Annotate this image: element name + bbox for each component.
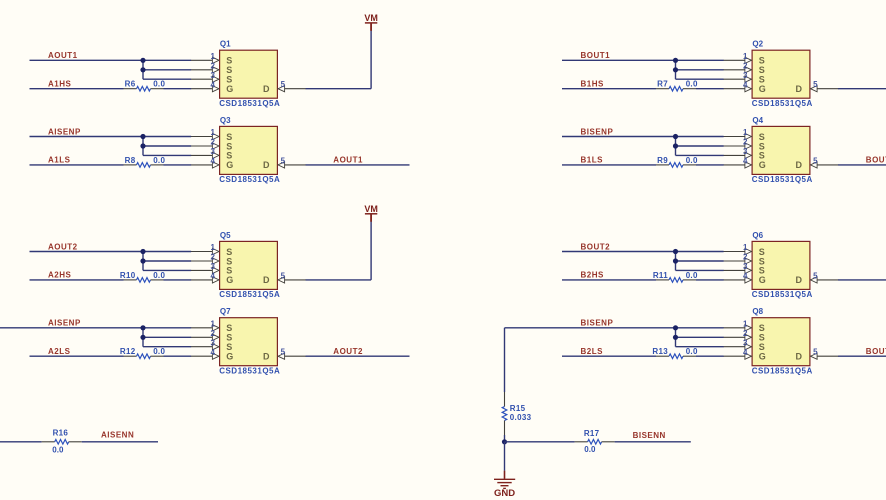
junction on net AISENP at Q7 pin 2 branch <box>140 335 145 340</box>
svg-text:3: 3 <box>743 147 748 156</box>
svg-text:BISENN: BISENN <box>633 431 666 440</box>
svg-text:S: S <box>759 266 765 276</box>
wire from Q6 drain pin 5 to VM (off sheet right) <box>838 279 886 281</box>
resistor R17 (0.0 ohm, BISENN sense) <box>575 440 615 445</box>
wire net AOUT1 to Q1 pins 1-3 <box>30 60 192 79</box>
svg-text:0.0: 0.0 <box>686 347 698 356</box>
svg-text:S: S <box>226 266 232 276</box>
wire net BISENP vertical from Q8 pin1 row down to shunt R15 <box>504 328 506 392</box>
transistor Q1 pin 1 (S) stub, arrow, pin number <box>191 52 219 64</box>
junction on net BISENP at Q4 pin 2 branch <box>673 143 678 148</box>
junction on net BISENP at Q8 pin 2 branch <box>673 335 678 340</box>
junction on net AOUT2 at Q5 pin 2 branch <box>140 258 145 263</box>
svg-text:A1HS: A1HS <box>48 80 72 89</box>
transistor Q3 pin 1 (S) stub, arrow, pin number <box>191 128 219 140</box>
svg-text:4: 4 <box>743 348 748 357</box>
transistor Q7 pin 2 (S) stub, arrow, pin number <box>191 329 219 341</box>
svg-text:D: D <box>796 84 803 94</box>
svg-text:1: 1 <box>211 128 216 137</box>
transistor Q4 pin 1 (S) stub, arrow, pin number <box>723 128 751 140</box>
svg-text:3: 3 <box>743 262 748 271</box>
resistor R15 (0.033 ohm current shunt, vertical) <box>502 392 507 435</box>
svg-text:CSD18531Q5A: CSD18531Q5A <box>219 366 280 375</box>
transistor Q6 pin 2 (S) stub, arrow, pin number <box>723 253 751 265</box>
wire net AISENN from R16 <box>82 441 158 443</box>
svg-text:G: G <box>759 160 766 170</box>
svg-text:S: S <box>759 151 765 161</box>
svg-text:5: 5 <box>281 271 286 280</box>
wire from R15 to GND junction <box>504 435 506 442</box>
svg-text:R11: R11 <box>653 271 668 280</box>
svg-text:1: 1 <box>743 128 748 137</box>
transistor Q7 body (CSD18531Q5A power MOSFET block) <box>220 318 278 366</box>
wire net A2LS to resistor R12 <box>30 355 124 357</box>
svg-text:2: 2 <box>211 253 216 262</box>
resistor R7 (series 0.0 ohm in B1HS gate line) <box>656 86 696 91</box>
svg-text:S: S <box>226 75 232 85</box>
junction on net BISENP at Q4 pin 1 branch <box>673 134 678 139</box>
svg-text:D: D <box>263 352 270 362</box>
transistor Q3 body (CSD18531Q5A power MOSFET block) <box>220 126 278 174</box>
junction on net AISENP at Q7 pin 1 branch <box>140 325 145 330</box>
wire net AOUT2 from Q7 drain pin 5 <box>306 355 410 357</box>
wire from resistor R7 to Q2 gate pin 4 <box>696 88 724 90</box>
svg-text:1: 1 <box>743 52 748 61</box>
svg-text:3: 3 <box>743 71 748 80</box>
svg-text:3: 3 <box>211 147 216 156</box>
svg-text:Q3: Q3 <box>220 116 231 125</box>
svg-text:0.0: 0.0 <box>153 347 165 356</box>
svg-text:3: 3 <box>211 71 216 80</box>
transistor Q4 pin 5 (D) stub, arrow, pin number <box>811 156 839 168</box>
wire net A2HS to resistor R10 <box>30 279 124 281</box>
transistor Q2 pin 2 (S) stub, arrow, pin number <box>723 61 751 73</box>
svg-text:3: 3 <box>743 338 748 347</box>
svg-text:G: G <box>759 84 766 94</box>
transistor Q2 pin 3 (S) stub, arrow, pin number <box>723 71 751 83</box>
transistor Q7 pin 5 (D) stub, arrow, pin number <box>278 348 306 360</box>
svg-text:B2HS: B2HS <box>581 271 605 280</box>
svg-text:R12: R12 <box>120 347 136 356</box>
svg-text:BOUT1: BOUT1 <box>581 51 611 60</box>
transistor Q7 pin 4 (G) stub, arrow, pin number <box>191 348 219 360</box>
svg-text:VM: VM <box>364 13 378 23</box>
transistor Q2 pin 5 (D) stub, arrow, pin number <box>811 80 839 92</box>
svg-text:4: 4 <box>211 80 216 89</box>
resistor R13 (series 0.0 ohm in B2LS gate line) <box>656 354 696 359</box>
wire net BISENP to Q4 pins 1-3 <box>562 137 724 156</box>
svg-text:R16: R16 <box>53 428 69 437</box>
junction on net BISENP at Q8 pin 1 branch <box>673 325 678 330</box>
svg-text:CSD18531Q5A: CSD18531Q5A <box>752 290 813 299</box>
svg-text:Q1: Q1 <box>220 40 231 49</box>
transistor Q7 pin 1 (S) stub, arrow, pin number <box>191 319 219 331</box>
wire net B2HS to resistor R11 <box>562 279 656 281</box>
transistor Q3 pin 4 (G) stub, arrow, pin number <box>191 157 219 169</box>
junction on net BOUT1 at Q2 pin 1 branch <box>673 58 678 63</box>
wire from Q1 drain pin 5 to VM <box>306 23 372 89</box>
wire net AOUT2 to Q5 pins 1-3 <box>30 252 192 271</box>
svg-text:CSD18531Q5A: CSD18531Q5A <box>752 175 813 184</box>
transistor Q8 pin 3 (S) stub, arrow, pin number <box>723 338 751 350</box>
svg-text:4: 4 <box>211 348 216 357</box>
svg-text:A2HS: A2HS <box>48 271 72 280</box>
svg-text:2: 2 <box>743 253 748 262</box>
svg-text:0.0: 0.0 <box>52 446 64 455</box>
transistor Q3 pin 5 (D) stub, arrow, pin number <box>278 156 306 168</box>
transistor Q6 pin 5 (D) stub, arrow, pin number <box>811 271 839 283</box>
wire net B1HS to resistor R7 <box>562 88 656 90</box>
svg-text:0.0: 0.0 <box>584 445 596 454</box>
ground symbol GND <box>494 479 515 488</box>
transistor Q8 pin 4 (G) stub, arrow, pin number <box>723 348 751 360</box>
svg-text:CSD18531Q5A: CSD18531Q5A <box>219 175 280 184</box>
transistor Q5 body (CSD18531Q5A power MOSFET block) <box>220 241 278 289</box>
wire net A1HS to resistor R6 <box>30 88 124 90</box>
svg-text:BOUT1: BOUT1 <box>866 156 886 165</box>
wire net BISENN from R17 <box>615 441 691 443</box>
svg-text:5: 5 <box>813 80 818 89</box>
wire net AISENP sense line into resistor R16 (from sheet edge) <box>0 441 42 443</box>
svg-text:Q8: Q8 <box>752 307 763 316</box>
svg-text:S: S <box>226 151 232 161</box>
svg-text:BOUT2: BOUT2 <box>866 347 886 356</box>
resistor R11 (series 0.0 ohm in B2HS gate line) <box>656 278 696 283</box>
wire from junction down to ground <box>504 442 506 479</box>
svg-text:G: G <box>759 275 766 285</box>
svg-text:Q5: Q5 <box>220 231 231 240</box>
transistor Q6 pin 1 (S) stub, arrow, pin number <box>723 243 751 255</box>
wire from resistor R8 to Q3 gate pin 4 <box>164 164 192 166</box>
power symbol VM (bar) <box>365 214 377 222</box>
transistor Q2 pin 4 (G) stub, arrow, pin number <box>723 80 751 92</box>
transistor Q2 body (CSD18531Q5A power MOSFET block) <box>752 50 810 98</box>
svg-text:AOUT2: AOUT2 <box>333 347 363 356</box>
svg-text:5: 5 <box>281 348 286 357</box>
transistor Q5 pin 1 (S) stub, arrow, pin number <box>191 243 219 255</box>
resistor R8 (series 0.0 ohm in A1LS gate line) <box>124 163 164 168</box>
svg-text:AISENN: AISENN <box>101 430 134 439</box>
svg-text:4: 4 <box>743 272 748 281</box>
transistor Q1 pin 3 (S) stub, arrow, pin number <box>191 71 219 83</box>
transistor Q1 body (CSD18531Q5A power MOSFET block) <box>220 50 278 98</box>
svg-text:1: 1 <box>211 243 216 252</box>
svg-text:S: S <box>226 342 232 352</box>
transistor Q1 pin 4 (G) stub, arrow, pin number <box>191 80 219 92</box>
wire from Q2 drain pin 5 to VM (off sheet right) <box>838 88 886 90</box>
svg-text:4: 4 <box>743 80 748 89</box>
transistor Q4 pin 2 (S) stub, arrow, pin number <box>723 138 751 150</box>
resistor R16 (0.0 ohm, AISENN sense) <box>42 440 82 445</box>
wire from resistor R12 to Q7 gate pin 4 <box>164 355 192 357</box>
svg-text:S: S <box>759 132 765 142</box>
svg-text:B1HS: B1HS <box>581 80 605 89</box>
transistor Q6 pin 4 (G) stub, arrow, pin number <box>723 272 751 284</box>
svg-text:Q4: Q4 <box>752 116 763 125</box>
svg-text:5: 5 <box>813 271 818 280</box>
svg-text:R10: R10 <box>120 271 136 280</box>
svg-text:CSD18531Q5A: CSD18531Q5A <box>752 99 813 108</box>
svg-text:2: 2 <box>211 61 216 70</box>
svg-text:S: S <box>226 323 232 333</box>
svg-text:R15: R15 <box>510 404 526 413</box>
svg-text:BOUT2: BOUT2 <box>581 242 611 251</box>
transistor Q3 pin 2 (S) stub, arrow, pin number <box>191 138 219 150</box>
transistor Q5 pin 5 (D) stub, arrow, pin number <box>278 271 306 283</box>
svg-text:R17: R17 <box>584 429 600 438</box>
svg-text:D: D <box>796 352 803 362</box>
svg-text:3: 3 <box>211 338 216 347</box>
wire from resistor R6 to Q1 gate pin 4 <box>164 88 192 90</box>
junction on net AOUT1 at Q1 pin 1 branch <box>140 58 145 63</box>
svg-text:5: 5 <box>813 156 818 165</box>
svg-text:S: S <box>759 56 765 66</box>
transistor Q1 pin 2 (S) stub, arrow, pin number <box>191 61 219 73</box>
svg-text:G: G <box>226 275 233 285</box>
svg-text:GND: GND <box>494 488 515 499</box>
svg-text:0.0: 0.0 <box>153 156 165 165</box>
svg-text:B2LS: B2LS <box>581 347 604 356</box>
svg-text:CSD18531Q5A: CSD18531Q5A <box>219 290 280 299</box>
svg-text:5: 5 <box>813 348 818 357</box>
wire from Q5 drain pin 5 to VM <box>306 214 372 280</box>
svg-text:CSD18531Q5A: CSD18531Q5A <box>219 99 280 108</box>
svg-text:Q7: Q7 <box>220 307 231 316</box>
svg-text:AISENP: AISENP <box>48 319 81 328</box>
wire net AISENP to Q3 pins 1-3 <box>30 137 192 156</box>
svg-text:1: 1 <box>211 319 216 328</box>
resistor R10 (series 0.0 ohm in A2HS gate line) <box>124 278 164 283</box>
junction at R15 / R17 / GND node <box>502 439 507 444</box>
svg-text:0.0: 0.0 <box>686 156 698 165</box>
transistor Q6 pin 3 (S) stub, arrow, pin number <box>723 262 751 274</box>
svg-text:S: S <box>759 75 765 85</box>
junction on net AOUT2 at Q5 pin 1 branch <box>140 249 145 254</box>
svg-text:1: 1 <box>743 319 748 328</box>
wire net BOUT1 to Q2 pins 1-3 <box>562 60 724 79</box>
transistor Q8 pin 2 (S) stub, arrow, pin number <box>723 329 751 341</box>
wire net BOUT2 to Q6 pins 1-3 <box>562 252 724 271</box>
svg-text:2: 2 <box>211 329 216 338</box>
wire net AOUT1 from Q3 drain pin 5 <box>306 164 410 166</box>
wire net A1LS to resistor R8 <box>30 164 124 166</box>
wire from resistor R10 to Q5 gate pin 4 <box>164 279 192 281</box>
transistor Q5 pin 3 (S) stub, arrow, pin number <box>191 262 219 274</box>
svg-text:AOUT1: AOUT1 <box>333 156 363 165</box>
svg-text:BISENP: BISENP <box>581 319 614 328</box>
svg-text:5: 5 <box>281 156 286 165</box>
svg-text:CSD18531Q5A: CSD18531Q5A <box>752 366 813 375</box>
svg-text:G: G <box>226 160 233 170</box>
svg-text:S: S <box>759 342 765 352</box>
transistor Q4 pin 3 (S) stub, arrow, pin number <box>723 147 751 159</box>
svg-text:Q2: Q2 <box>752 40 763 49</box>
wire net B2LS to resistor R13 <box>562 355 656 357</box>
svg-text:D: D <box>263 275 270 285</box>
junction on net BOUT2 at Q6 pin 1 branch <box>673 249 678 254</box>
svg-text:Q6: Q6 <box>752 231 763 240</box>
transistor Q2 pin 1 (S) stub, arrow, pin number <box>723 52 751 64</box>
svg-text:S: S <box>759 323 765 333</box>
svg-text:VM: VM <box>364 204 378 214</box>
svg-text:D: D <box>796 275 803 285</box>
wire from resistor R11 to Q6 gate pin 4 <box>696 279 724 281</box>
svg-text:R6: R6 <box>125 80 136 89</box>
transistor Q8 body (CSD18531Q5A power MOSFET block) <box>752 318 810 366</box>
svg-text:2: 2 <box>211 138 216 147</box>
junction on net BOUT2 at Q6 pin 2 branch <box>673 258 678 263</box>
svg-text:5: 5 <box>281 80 286 89</box>
svg-text:R9: R9 <box>657 156 668 165</box>
svg-text:AOUT2: AOUT2 <box>48 242 78 251</box>
svg-text:S: S <box>226 132 232 142</box>
svg-text:B1LS: B1LS <box>581 156 604 165</box>
wire from resistor R13 to Q8 gate pin 4 <box>696 355 724 357</box>
transistor Q8 pin 5 (D) stub, arrow, pin number <box>811 348 839 360</box>
wire net B1LS to resistor R9 <box>562 164 656 166</box>
transistor Q5 pin 4 (G) stub, arrow, pin number <box>191 272 219 284</box>
junction on net AOUT1 at Q1 pin 2 branch <box>140 67 145 72</box>
svg-text:G: G <box>226 84 233 94</box>
svg-text:2: 2 <box>743 138 748 147</box>
svg-text:1: 1 <box>211 52 216 61</box>
svg-text:D: D <box>263 84 270 94</box>
svg-text:0.0: 0.0 <box>153 80 165 89</box>
svg-text:A2LS: A2LS <box>48 347 71 356</box>
svg-text:G: G <box>226 352 233 362</box>
svg-text:4: 4 <box>211 157 216 166</box>
svg-text:G: G <box>759 352 766 362</box>
svg-text:1: 1 <box>743 243 748 252</box>
svg-text:S: S <box>226 56 232 66</box>
transistor Q6 body (CSD18531Q5A power MOSFET block) <box>752 241 810 289</box>
svg-text:D: D <box>263 160 270 170</box>
svg-text:A1LS: A1LS <box>48 156 71 165</box>
svg-text:0.033: 0.033 <box>510 413 532 422</box>
svg-text:S: S <box>226 247 232 257</box>
junction on net AISENP at Q3 pin 1 branch <box>140 134 145 139</box>
wire from resistor R9 to Q4 gate pin 4 <box>696 164 724 166</box>
svg-text:AISENP: AISENP <box>48 127 81 136</box>
svg-text:3: 3 <box>211 262 216 271</box>
wire net BISENP to Q8 pins 1-3 <box>505 328 724 347</box>
transistor Q1 pin 5 (D) stub, arrow, pin number <box>278 80 306 92</box>
svg-text:0.0: 0.0 <box>153 271 165 280</box>
svg-text:4: 4 <box>211 272 216 281</box>
svg-text:R8: R8 <box>125 156 136 165</box>
svg-text:S: S <box>759 247 765 257</box>
wire net BOUT1 from Q4 drain pin 5 <box>838 164 886 166</box>
transistor Q4 body (CSD18531Q5A power MOSFET block) <box>752 126 810 174</box>
resistor R9 (series 0.0 ohm in B1LS gate line) <box>656 163 696 168</box>
svg-text:2: 2 <box>743 329 748 338</box>
wire from junction to resistor R17 <box>505 441 575 443</box>
svg-text:BISENP: BISENP <box>581 127 614 136</box>
transistor Q5 pin 2 (S) stub, arrow, pin number <box>191 253 219 265</box>
svg-text:0.0: 0.0 <box>686 80 698 89</box>
svg-text:D: D <box>796 160 803 170</box>
transistor Q4 pin 4 (G) stub, arrow, pin number <box>723 157 751 169</box>
transistor Q7 pin 3 (S) stub, arrow, pin number <box>191 338 219 350</box>
svg-text:R13: R13 <box>652 347 668 356</box>
svg-text:2: 2 <box>743 61 748 70</box>
junction on net AISENP at Q3 pin 2 branch <box>140 143 145 148</box>
wire net BOUT2 from Q8 drain pin 5 <box>838 355 886 357</box>
svg-text:0.0: 0.0 <box>686 271 698 280</box>
junction on net BOUT1 at Q2 pin 2 branch <box>673 67 678 72</box>
transistor Q3 pin 3 (S) stub, arrow, pin number <box>191 147 219 159</box>
svg-text:AOUT1: AOUT1 <box>48 51 78 60</box>
wire net AISENP to Q7 pins 1-3 <box>0 328 191 347</box>
transistor Q8 pin 1 (S) stub, arrow, pin number <box>723 319 751 331</box>
svg-text:R7: R7 <box>657 80 668 89</box>
svg-text:4: 4 <box>743 157 748 166</box>
power symbol VM (bar) <box>365 23 377 31</box>
resistor R6 (series 0.0 ohm in A1HS gate line) <box>124 86 164 91</box>
resistor R12 (series 0.0 ohm in A2LS gate line) <box>124 354 164 359</box>
